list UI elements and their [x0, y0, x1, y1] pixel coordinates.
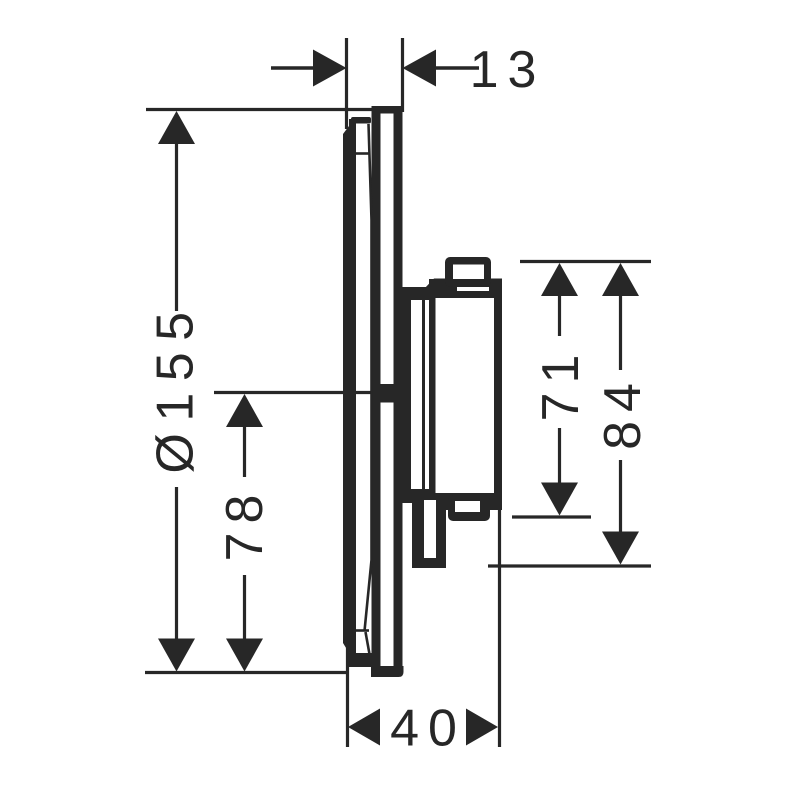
- plate front inner contour line: [365, 124, 372, 631]
- svg-text:84: 84: [594, 374, 652, 450]
- rear plate left bar: [372, 106, 381, 675]
- valve body bottom tab: [448, 495, 490, 521]
- mounting bracket top arm: [398, 287, 429, 300]
- valve body bottom brim: [418, 493, 502, 510]
- valve body top brim: [424, 279, 502, 290]
- mounting bracket bottom arm: [398, 489, 429, 503]
- plate front pocket edge: [366, 632, 370, 654]
- plate front contour tick top: [356, 152, 369, 155]
- extension line 13 right: [401, 38, 404, 112]
- svg-text:78: 78: [216, 486, 274, 562]
- plate front top cap: [351, 117, 371, 124]
- arrowhead dim 13 left: [313, 50, 347, 87]
- arrowhead dim 13 right: [403, 50, 437, 87]
- svg-text:71: 71: [532, 346, 590, 422]
- valve body top tab interior: [453, 265, 484, 280]
- plate center connector: [380, 384, 394, 403]
- svg-text:13: 13: [470, 41, 546, 99]
- arrowhead dim 78 down: [226, 639, 263, 672]
- dim 84 shaft upper: [619, 294, 622, 370]
- dim 13 shaft right: [433, 66, 479, 69]
- arrowhead dim 71 down: [541, 483, 578, 516]
- arrowhead dim 84 down: [602, 532, 639, 565]
- dim 78 shaft lower: [243, 575, 246, 642]
- dim 155 shaft upper: [175, 142, 178, 311]
- extension line 40 right: [498, 505, 501, 747]
- valve body outer: [429, 279, 502, 503]
- rear plate top cap: [373, 106, 403, 114]
- svg-text:Ø155: Ø155: [147, 300, 205, 473]
- mounting bracket left bar: [403, 289, 412, 502]
- extension line top (plate top, for dim 155): [146, 108, 402, 111]
- center line (for dim 78): [214, 391, 400, 394]
- arrowhead dim 155 up: [158, 111, 195, 144]
- dim 84 shaft lower: [619, 460, 622, 532]
- extension line 71 bottom: [512, 515, 591, 518]
- plate front bottom cap: [349, 653, 376, 667]
- dim 155 shaft lower: [175, 487, 178, 642]
- plate front contour tick bottom: [356, 629, 369, 632]
- dim 13 shaft left: [271, 66, 316, 69]
- plate front face bar: [343, 122, 356, 656]
- dim 78 shaft upper: [243, 425, 246, 477]
- arrowhead dim 78 up: [226, 394, 263, 427]
- valve body interior: [436, 298, 495, 494]
- top tab white separation: [457, 287, 489, 291]
- svg-text:40: 40: [390, 700, 466, 758]
- arrowhead dim 40 right: [466, 709, 498, 746]
- valve body lower housing: [412, 500, 446, 568]
- arrowhead dim 84 up: [602, 263, 639, 296]
- extension line 84 bottom: [488, 564, 651, 567]
- extension line top right (for dims 71 and 84): [520, 260, 651, 263]
- mounting bracket right bar: [422, 289, 425, 502]
- arrowhead dim 40 left: [348, 709, 380, 746]
- valve body lower housing interior: [424, 500, 436, 558]
- extension line 13 left: [345, 38, 348, 129]
- valve body bottom tab interior: [455, 501, 480, 512]
- plate front top step: [349, 119, 355, 135]
- arrowhead dim 71 up: [541, 263, 578, 296]
- rear plate right bar: [394, 106, 403, 675]
- valve body top tab: [445, 257, 491, 287]
- extension line 40 left: [346, 634, 349, 747]
- arrowhead dim 155 down: [158, 639, 195, 672]
- dim 71 shaft lower: [558, 428, 561, 484]
- rear plate bottom cap: [371, 666, 404, 677]
- extension line bottom (plate bottom, for dim 155 and 78): [145, 671, 348, 674]
- dim 71 shaft upper: [558, 294, 561, 336]
